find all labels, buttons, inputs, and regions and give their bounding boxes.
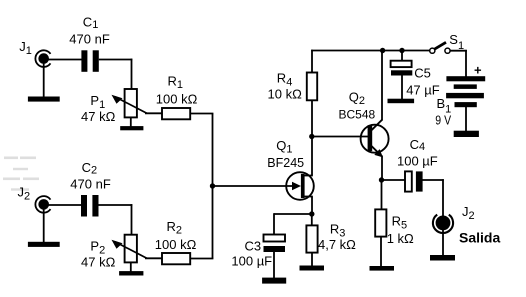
svg-text:C4: C4 [410, 137, 426, 153]
svg-text:J2: J2 [462, 204, 475, 222]
svg-text:47 kΩ: 47 kΩ [81, 255, 116, 270]
svg-text:Q1: Q1 [276, 138, 292, 156]
svg-text:C1: C1 [83, 15, 99, 32]
svg-text:1 kΩ: 1 kΩ [387, 231, 414, 246]
svg-text:J2: J2 [18, 184, 31, 202]
svg-text:470 nF: 470 nF [70, 177, 111, 192]
svg-text:100 µF: 100 µF [397, 153, 438, 168]
svg-text:C5: C5 [414, 65, 431, 80]
svg-text:BF245: BF245 [267, 156, 304, 170]
svg-text:4,7 kΩ: 4,7 kΩ [318, 237, 356, 252]
svg-text:9 V: 9 V [435, 112, 451, 127]
svg-text:100 kΩ: 100 kΩ [156, 92, 198, 107]
svg-text:S1: S1 [449, 32, 464, 52]
svg-text:47 kΩ: 47 kΩ [81, 109, 116, 124]
svg-text:R1: R1 [168, 73, 184, 91]
svg-text:10 kΩ: 10 kΩ [268, 87, 303, 102]
svg-text:Q2: Q2 [349, 90, 365, 108]
svg-text:BC548: BC548 [339, 107, 376, 121]
svg-text:+: + [474, 63, 482, 78]
svg-text:100 µF: 100 µF [231, 254, 272, 269]
svg-text:47 µF: 47 µF [406, 82, 440, 97]
svg-text:R5: R5 [392, 213, 408, 231]
svg-text:C3: C3 [245, 238, 262, 253]
svg-text:100 kΩ: 100 kΩ [155, 237, 197, 252]
svg-text:J1: J1 [19, 39, 32, 57]
svg-text:C2: C2 [82, 160, 98, 177]
svg-text:470 nF: 470 nF [69, 31, 110, 46]
svg-text:R2: R2 [167, 219, 183, 237]
svg-text:Salida: Salida [459, 229, 500, 245]
